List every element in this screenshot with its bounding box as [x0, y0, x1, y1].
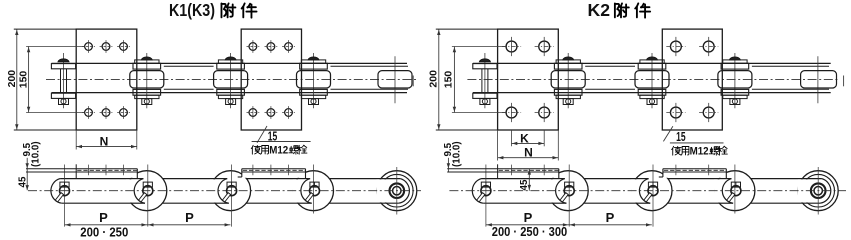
leader 15 / bolt note — [663, 126, 673, 141]
link plate rounded ends — [51, 179, 62, 204]
attachment plate 1 — [76, 29, 137, 130]
side view: pin at x=313.5 — [310, 186, 320, 196]
svg-text:P: P — [606, 210, 615, 225]
chain band outer lines — [52, 62, 408, 64]
svg-text:200: 200 — [6, 70, 18, 88]
left-middle of rollers hidden by preceding link plate — [547, 179, 568, 202]
dimension N — [497, 130, 499, 161]
svg-text:P: P — [185, 210, 194, 225]
side view centerline — [449, 190, 846, 192]
dimension P — [486, 224, 652, 226]
end roller — [798, 171, 838, 211]
dimension 200 — [436, 28, 498, 30]
svg-text:K: K — [520, 132, 529, 146]
dimension 200 — [14, 28, 76, 30]
attachment plate 2 — [662, 29, 722, 130]
break mark — [843, 76, 845, 87]
top view: pin joint at x=484.9 — [484, 53, 486, 108]
side view: pin at x=568.2 — [564, 186, 574, 196]
masks where bars hide roller arcs — [447, 166, 559, 178]
end roller — [377, 171, 417, 211]
dimension 150 — [452, 46, 507, 48]
link plate rounded ends — [472, 179, 483, 204]
roller vertical centerlines — [485, 165, 487, 227]
svg-text:15: 15 — [676, 130, 686, 144]
svg-text:P: P — [524, 210, 533, 225]
svg-text:150: 150 — [443, 71, 455, 89]
dimension K — [511, 130, 513, 146]
svg-text:200: 200 — [427, 70, 439, 88]
roller vertical centerlines — [64, 165, 66, 227]
dimension N — [75, 130, 77, 150]
svg-text:45: 45 — [17, 176, 28, 187]
svg-text:200 · 250 · 300: 200 · 250 · 300 — [492, 224, 568, 237]
top view: roller joint at x=652.0 — [651, 53, 653, 108]
side view: attachment bar 497.6-558.3 — [447, 168, 559, 170]
chain band outer lines — [473, 62, 831, 64]
svg-text:45: 45 — [519, 179, 530, 190]
rollers (white-filled, hide link lines) — [127, 171, 167, 211]
top view chain centerline — [467, 78, 840, 80]
top view: roller joint at x=734.9 — [734, 53, 736, 108]
dimension 150 — [26, 46, 84, 48]
svg-text:200 · 250: 200 · 250 — [80, 224, 128, 237]
svg-text:(10.0): (10.0) — [30, 141, 41, 167]
top view: roller joint at x=313.5 — [313, 53, 315, 108]
top view: pin joint at x=63.5 — [63, 53, 65, 108]
top view: roller joint at x=146.8 — [146, 53, 148, 108]
svg-text:K2: K2 — [588, 0, 611, 20]
top view chain centerline — [46, 78, 418, 80]
svg-text:M12: M12 — [690, 145, 709, 157]
svg-text:K1(K3): K1(K3) — [169, 0, 215, 20]
left-middle of rollers hidden by preceding link plate — [126, 179, 147, 202]
side view: pin at x=230.6 — [227, 186, 237, 196]
inner link lines — [164, 65, 214, 67]
dimension P — [65, 224, 231, 226]
side view: attachment bar 241.2-301.5 — [242, 168, 306, 170]
inner link lines — [585, 65, 635, 67]
svg-text:N: N — [524, 146, 533, 160]
side view: pin at x=146.8 — [143, 186, 153, 196]
top view: end roller at x=395.0 — [394, 56, 396, 103]
svg-text:N: N — [100, 134, 109, 148]
side view: pin at x=652.0 — [648, 186, 658, 196]
attachment plate 2 — [241, 29, 301, 130]
side view: pin at x=734.9 — [731, 186, 741, 196]
break mark — [412, 76, 414, 87]
side view centerline — [28, 190, 421, 192]
masks where bars hide roller arcs — [26, 166, 137, 178]
side view: pin at x=484.9 — [481, 186, 491, 196]
top view: end roller at x=817.9 — [817, 56, 819, 103]
svg-text:150: 150 — [17, 71, 29, 89]
dims 9.5 / (10.0) / 45 — [447, 158, 449, 172]
leader 15 / bolt note — [257, 126, 267, 143]
plate holes — [506, 41, 517, 52]
link plate lines — [482, 178, 803, 180]
plate holes — [85, 43, 93, 51]
svg-text:P: P — [99, 210, 108, 225]
top view: roller joint at x=568.2 — [567, 53, 569, 108]
rollers (white-filled, hide link lines) — [548, 171, 588, 211]
dims 9.5 / (10.0) / 45 — [26, 158, 28, 190]
side view: attachment bar 662.3-722.3 — [663, 168, 726, 170]
attachment plate 1 — [498, 29, 559, 130]
svg-text:M12: M12 — [269, 144, 288, 156]
top view: roller joint at x=230.6 — [230, 53, 232, 108]
side view: attachment bar 76.2-136.8 — [26, 168, 137, 170]
side view: pin at x=63.5 — [60, 186, 70, 196]
svg-text:(10.0): (10.0) — [452, 141, 463, 167]
link plate lines — [60, 178, 381, 180]
